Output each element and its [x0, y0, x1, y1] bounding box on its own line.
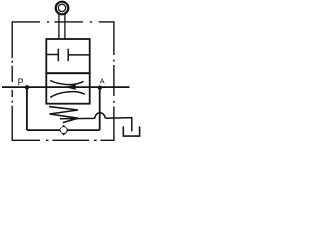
- flow line P to A: [2, 86, 130, 88]
- spring: [49, 107, 78, 123]
- valve upper body box: [46, 39, 89, 73]
- check valve V1 seat diamond: [59, 125, 69, 136]
- svg-text:A: A: [100, 77, 105, 86]
- throttle lower arc: [50, 92, 85, 98]
- throttle section box: [46, 73, 89, 104]
- blocked-port symbol left arm: [46, 54, 57, 56]
- bypass wire down from P junction: [26, 87, 28, 130]
- enclosure boundary top edge (dash-dot): [12, 21, 114, 23]
- bypass wire bottom horizontal: [27, 129, 100, 131]
- blocked-port symbol left bar: [57, 49, 59, 62]
- adjustment stem right line: [64, 14, 66, 39]
- adjustment stem left line: [58, 14, 60, 39]
- enclosure boundary right edge (dash-dot): [113, 21, 115, 140]
- vent wire left segment: [60, 117, 95, 119]
- svg-text:P: P: [18, 77, 24, 87]
- flow arrow head: [65, 84, 76, 90]
- throttle upper arc: [50, 80, 83, 84]
- knob U1 outer circle: [56, 2, 69, 15]
- node junction dot P branch: [25, 85, 29, 89]
- blocked-port symbol right arm: [69, 54, 90, 56]
- blocked-port symbol right bar: [67, 49, 69, 62]
- check valve V1 ball: [61, 127, 67, 133]
- vent wire right segment: [105, 118, 132, 132]
- enclosure boundary left edge (dash-dot): [11, 21, 13, 140]
- tank symbol: [123, 126, 139, 136]
- knob U1 inner circle: [58, 4, 65, 11]
- bypass wire up to A junction: [99, 88, 101, 131]
- node junction dot A branch: [98, 85, 102, 89]
- enclosure boundary bottom edge (dash-dot): [12, 139, 114, 141]
- vent wire crossover bump: [95, 113, 105, 119]
